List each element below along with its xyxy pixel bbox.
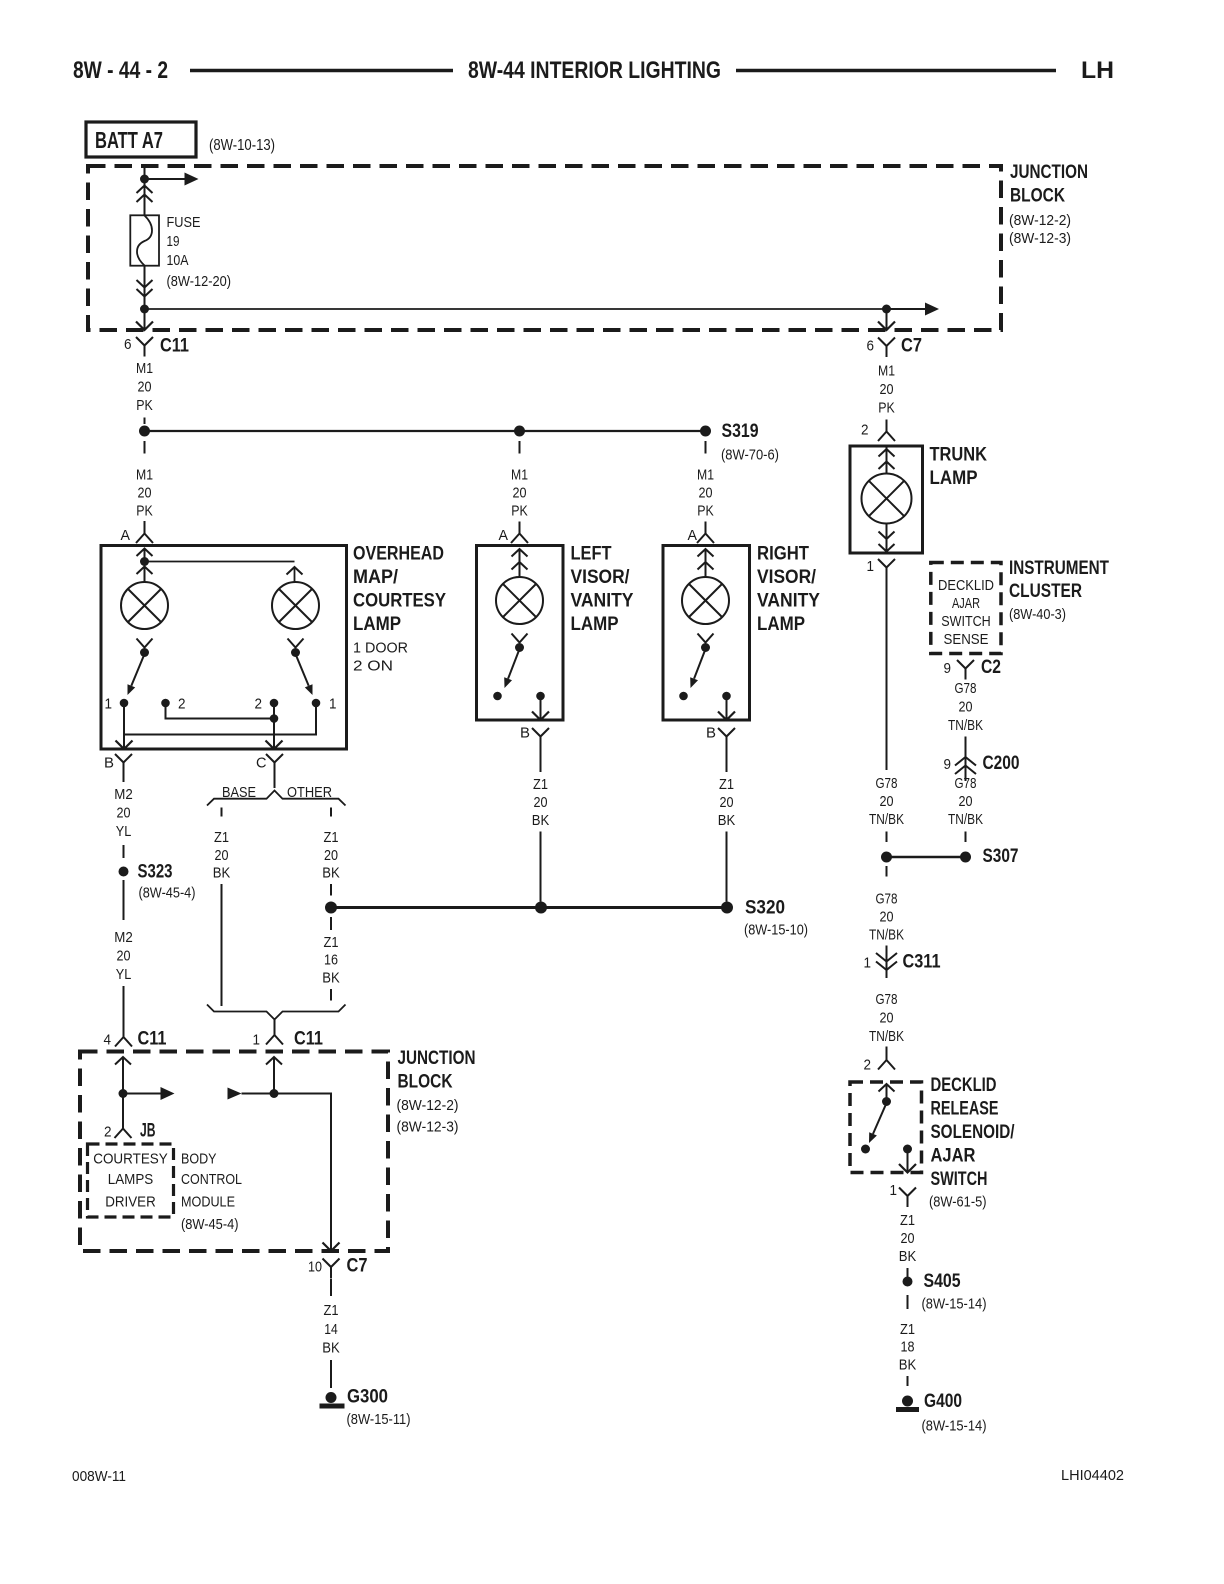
svg-text:M2: M2 (114, 786, 133, 803)
svg-text:LH: LH (1081, 57, 1114, 84)
svg-text:(8W-45-4): (8W-45-4) (181, 1216, 239, 1233)
svg-text:20: 20 (215, 847, 229, 864)
svg-text:A: A (121, 527, 131, 544)
svg-text:VANITY: VANITY (571, 591, 634, 612)
svg-text:BK: BK (213, 865, 231, 882)
svg-text:(8W-12-2): (8W-12-2) (397, 1097, 459, 1114)
svg-text:SWITCH: SWITCH (941, 613, 991, 630)
svg-text:OTHER: OTHER (287, 784, 332, 801)
svg-text:C11: C11 (160, 336, 189, 357)
svg-text:COURTESY: COURTESY (93, 1151, 168, 1168)
svg-text:PK: PK (511, 503, 528, 520)
svg-text:20: 20 (117, 948, 131, 965)
svg-text:8W-44 INTERIOR LIGHTING: 8W-44 INTERIOR LIGHTING (468, 57, 721, 84)
svg-text:TN/BK: TN/BK (869, 811, 904, 828)
svg-text:20: 20 (513, 485, 527, 502)
svg-text:G78: G78 (955, 680, 977, 697)
svg-text:FUSE: FUSE (167, 214, 201, 231)
svg-text:LEFT: LEFT (571, 544, 612, 565)
svg-text:16: 16 (324, 952, 338, 969)
svg-text:YL: YL (116, 966, 132, 983)
svg-text:C: C (256, 755, 267, 772)
svg-text:LAMP: LAMP (571, 614, 619, 635)
svg-text:20: 20 (901, 1230, 915, 1247)
svg-text:20: 20 (699, 485, 713, 502)
svg-text:INSTRUMENT: INSTRUMENT (1009, 558, 1109, 579)
svg-text:20: 20 (534, 794, 548, 811)
svg-text:RIGHT: RIGHT (757, 544, 809, 565)
svg-text:20: 20 (959, 793, 973, 810)
svg-text:Z1: Z1 (533, 776, 548, 793)
svg-text:(8W-15-14): (8W-15-14) (922, 1296, 987, 1313)
svg-text:Z1: Z1 (900, 1321, 915, 1338)
svg-text:C11: C11 (138, 1029, 167, 1050)
svg-text:G78: G78 (876, 891, 898, 908)
svg-text:(8W-15-10): (8W-15-10) (744, 922, 808, 939)
svg-text:C7: C7 (901, 336, 922, 357)
svg-text:TN/BK: TN/BK (948, 811, 983, 828)
svg-text:M2: M2 (114, 929, 133, 946)
svg-text:18: 18 (901, 1339, 915, 1356)
svg-text:9: 9 (944, 660, 952, 677)
svg-text:TN/BK: TN/BK (869, 1028, 904, 1045)
svg-text:B: B (104, 755, 114, 772)
svg-text:C200: C200 (983, 753, 1020, 774)
svg-text:BK: BK (322, 865, 340, 882)
svg-text:BK: BK (899, 1248, 917, 1265)
svg-text:14: 14 (324, 1321, 338, 1338)
svg-text:M1: M1 (511, 467, 528, 484)
svg-text:G78: G78 (955, 775, 977, 792)
svg-text:1: 1 (867, 558, 875, 575)
svg-text:2: 2 (861, 422, 869, 439)
svg-text:2: 2 (178, 696, 186, 713)
svg-text:4: 4 (104, 1032, 112, 1049)
svg-text:YL: YL (116, 823, 132, 840)
svg-text:VANITY: VANITY (757, 591, 820, 612)
svg-text:M1: M1 (697, 467, 714, 484)
svg-text:(8W-12-2): (8W-12-2) (1009, 212, 1071, 229)
svg-text:(8W-15-14): (8W-15-14) (922, 1418, 987, 1435)
svg-text:2: 2 (255, 696, 263, 713)
svg-text:G78: G78 (876, 991, 898, 1008)
svg-text:BK: BK (899, 1357, 917, 1374)
svg-text:AJAR: AJAR (931, 1146, 976, 1167)
svg-text:MAP/: MAP/ (353, 567, 399, 588)
svg-text:1: 1 (253, 1032, 261, 1049)
svg-text:S405: S405 (924, 1271, 961, 1292)
svg-text:DRIVER: DRIVER (105, 1194, 156, 1211)
svg-text:MODULE: MODULE (181, 1194, 235, 1211)
svg-text:Z1: Z1 (719, 776, 734, 793)
svg-text:20: 20 (880, 793, 894, 810)
svg-text:PK: PK (136, 397, 153, 414)
svg-text:20: 20 (138, 485, 152, 502)
svg-text:M1: M1 (136, 467, 153, 484)
svg-text:10: 10 (308, 1259, 322, 1276)
svg-text:PK: PK (136, 503, 153, 520)
svg-text:BLOCK: BLOCK (398, 1072, 453, 1093)
svg-text:G400: G400 (924, 1391, 962, 1412)
svg-text:C11: C11 (294, 1029, 323, 1050)
svg-text:(8W-70-6): (8W-70-6) (721, 447, 779, 464)
svg-text:SENSE: SENSE (944, 631, 989, 648)
svg-text:BATT A7: BATT A7 (95, 127, 163, 153)
svg-text:8W - 44 - 2: 8W - 44 - 2 (73, 57, 168, 84)
svg-text:OVERHEAD: OVERHEAD (353, 544, 444, 565)
svg-text:1: 1 (864, 955, 872, 972)
svg-text:C311: C311 (903, 952, 941, 973)
svg-text:Z1: Z1 (324, 1302, 339, 1319)
svg-text:BK: BK (532, 812, 550, 829)
svg-text:JUNCTION: JUNCTION (398, 1048, 476, 1069)
svg-text:BASE: BASE (222, 784, 256, 801)
svg-text:CONTROL: CONTROL (181, 1171, 242, 1188)
svg-text:TN/BK: TN/BK (869, 927, 904, 944)
svg-text:VISOR/: VISOR/ (757, 567, 817, 588)
svg-text:20: 20 (880, 381, 894, 398)
svg-text:S323: S323 (138, 862, 173, 883)
svg-text:(8W-61-5): (8W-61-5) (929, 1194, 987, 1211)
svg-text:LAMP: LAMP (757, 614, 805, 635)
svg-text:BLOCK: BLOCK (1010, 186, 1065, 207)
svg-text:19: 19 (167, 233, 180, 250)
svg-text:(8W-12-3): (8W-12-3) (1009, 230, 1071, 247)
svg-text:VISOR/: VISOR/ (571, 567, 631, 588)
svg-text:6: 6 (124, 336, 132, 353)
svg-text:S320: S320 (745, 898, 785, 919)
svg-text:RELEASE: RELEASE (931, 1099, 999, 1120)
svg-text:A: A (499, 527, 509, 544)
svg-text:1: 1 (329, 696, 337, 713)
svg-text:SOLENOID/: SOLENOID/ (931, 1122, 1016, 1143)
svg-text:BODY: BODY (181, 1151, 217, 1168)
svg-text:A: A (688, 527, 698, 544)
svg-text:(8W-15-11): (8W-15-11) (347, 1411, 411, 1428)
svg-text:1 DOOR: 1 DOOR (353, 640, 408, 657)
svg-text:PK: PK (878, 400, 895, 417)
svg-text:(8W-12-3): (8W-12-3) (397, 1119, 459, 1136)
svg-text:(8W-45-4): (8W-45-4) (139, 885, 196, 902)
svg-text:Z1: Z1 (324, 829, 339, 846)
svg-text:LAMP: LAMP (353, 614, 401, 635)
svg-text:LHI04402: LHI04402 (1061, 1467, 1124, 1484)
svg-text:10A: 10A (167, 252, 189, 269)
svg-text:C2: C2 (981, 657, 1001, 678)
svg-text:LAMPS: LAMPS (108, 1171, 154, 1188)
svg-text:008W-11: 008W-11 (72, 1468, 126, 1485)
svg-text:20: 20 (117, 805, 131, 822)
svg-text:C7: C7 (347, 1256, 368, 1277)
svg-text:20: 20 (959, 699, 973, 716)
svg-text:DECKLID: DECKLID (938, 577, 994, 594)
svg-text:20: 20 (720, 794, 734, 811)
svg-text:(8W-40-3): (8W-40-3) (1009, 606, 1066, 623)
svg-text:SWITCH: SWITCH (931, 1169, 988, 1190)
svg-text:BK: BK (322, 1340, 340, 1357)
svg-text:20: 20 (324, 847, 338, 864)
svg-text:1: 1 (890, 1182, 898, 1199)
svg-text:LAMP: LAMP (930, 468, 978, 489)
svg-text:BK: BK (718, 812, 736, 829)
svg-text:M1: M1 (878, 363, 895, 380)
svg-text:9: 9 (944, 756, 952, 773)
svg-text:TRUNK: TRUNK (930, 445, 988, 466)
svg-text:20: 20 (138, 379, 152, 396)
svg-text:BK: BK (322, 970, 340, 987)
svg-text:Z1: Z1 (324, 934, 339, 951)
svg-text:JB: JB (140, 1121, 156, 1142)
svg-text:2: 2 (864, 1057, 872, 1074)
svg-text:2 ON: 2 ON (353, 658, 393, 675)
svg-text:(8W-12-20): (8W-12-20) (167, 273, 232, 290)
svg-text:G300: G300 (347, 1387, 388, 1408)
svg-text:S307: S307 (983, 846, 1019, 867)
svg-text:M1: M1 (136, 360, 153, 377)
svg-text:Z1: Z1 (214, 829, 229, 846)
svg-text:20: 20 (880, 909, 894, 926)
svg-text:PK: PK (697, 503, 714, 520)
svg-text:6: 6 (867, 338, 875, 355)
svg-text:AJAR: AJAR (952, 595, 980, 612)
svg-text:S319: S319 (722, 421, 759, 442)
svg-text:2: 2 (104, 1124, 112, 1141)
svg-text:G78: G78 (876, 775, 898, 792)
svg-text:JUNCTION: JUNCTION (1010, 162, 1088, 183)
svg-text:CLUSTER: CLUSTER (1009, 581, 1082, 602)
svg-text:Z1: Z1 (900, 1212, 915, 1229)
svg-text:TN/BK: TN/BK (948, 717, 983, 734)
svg-text:DECKLID: DECKLID (931, 1075, 997, 1096)
svg-text:B: B (520, 725, 530, 742)
svg-text:B: B (706, 725, 716, 742)
svg-text:COURTESY: COURTESY (353, 591, 446, 612)
svg-text:20: 20 (880, 1010, 894, 1027)
svg-text:(8W-10-13): (8W-10-13) (209, 137, 275, 154)
svg-text:1: 1 (105, 696, 113, 713)
